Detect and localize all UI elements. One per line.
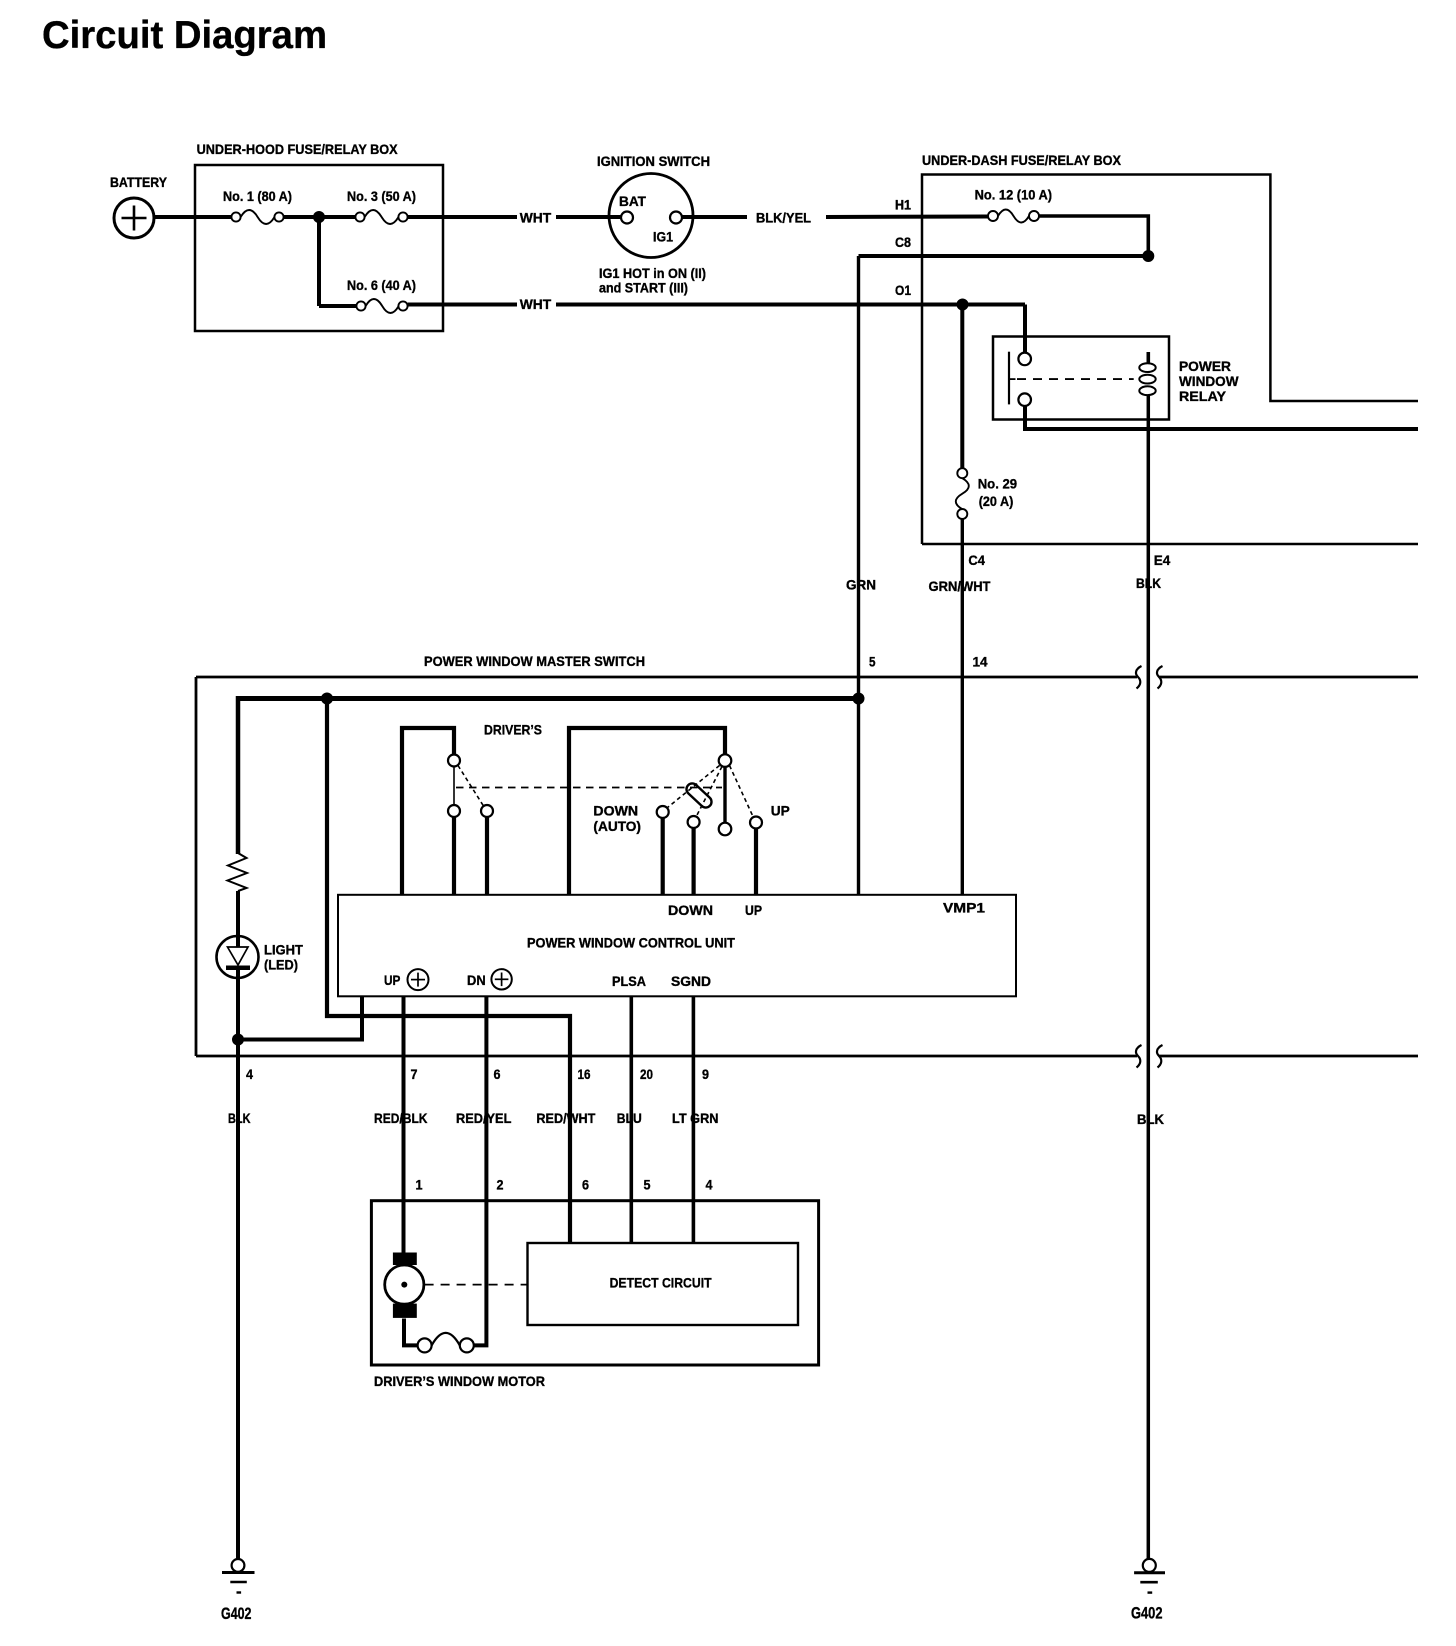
floating contact circle	[719, 823, 732, 836]
svg-text:PLSA: PLSA	[612, 973, 646, 989]
svg-text:LT GRN: LT GRN	[672, 1110, 719, 1126]
pivot contact circle	[719, 754, 732, 767]
svg-text:7: 7	[411, 1066, 418, 1082]
moving contact thin link	[453, 767, 455, 806]
svg-text:BLK: BLK	[1136, 575, 1161, 591]
wire contact to control unit	[485, 817, 489, 895]
svg-text:WHT: WHT	[520, 296, 552, 312]
svg-text:G402: G402	[221, 1604, 252, 1623]
svg-text:UP: UP	[745, 902, 762, 918]
svg-text:BAT: BAT	[619, 193, 646, 209]
inline connector circles	[418, 1338, 432, 1352]
wire fuse6 WHT to under-dash O1	[408, 303, 517, 307]
svg-text:DETECT CIRCUIT: DETECT CIRCUIT	[610, 1275, 712, 1291]
relay contact top	[1018, 353, 1031, 366]
svg-text:BLK/YEL: BLK/YEL	[756, 210, 811, 226]
svg-text:6: 6	[494, 1066, 501, 1082]
wire break mark	[1136, 1045, 1142, 1068]
svg-text:WINDOW: WINDOW	[1179, 373, 1239, 389]
long dashed actuation link	[456, 787, 722, 789]
wire O1 drop to fuse29	[960, 305, 964, 469]
svg-text:No. 12 (10 A): No. 12 (10 A)	[975, 187, 1053, 203]
wire pin9 LT GRN	[692, 996, 696, 1243]
svg-text:BLK: BLK	[228, 1110, 251, 1126]
junction node C8	[1142, 250, 1154, 262]
svg-text:Circuit Diagram: Circuit Diagram	[42, 14, 327, 57]
svg-text:14: 14	[973, 654, 988, 670]
ignition switch SW	[609, 174, 693, 258]
svg-text:RED/YEL: RED/YEL	[456, 1110, 512, 1126]
master switch box top edge	[196, 677, 1418, 1056]
relay switch plate	[1008, 352, 1010, 405]
junction node rail/GRN	[853, 693, 865, 705]
wire relay coil to ground BLK (E4)	[1147, 395, 1151, 1559]
svg-text:(AUTO): (AUTO)	[593, 818, 641, 834]
svg-text:DOWN: DOWN	[593, 803, 638, 819]
svg-text:E4: E4	[1154, 552, 1171, 568]
wire up contact to control unit	[754, 829, 758, 896]
svg-text:6: 6	[582, 1177, 589, 1193]
control unit box	[338, 895, 1016, 997]
svg-text:GRN/WHT: GRN/WHT	[929, 578, 991, 594]
svg-text:WHT: WHT	[520, 210, 552, 226]
wire fuse12 to coil feed	[1039, 216, 1148, 256]
wire resistor to LED	[236, 891, 240, 947]
svg-text:BATTERY: BATTERY	[110, 174, 168, 190]
ground G402 right	[1134, 1559, 1165, 1593]
contact circle UP	[750, 817, 762, 829]
wire contact to control unit	[452, 817, 456, 895]
relay coil	[1139, 352, 1155, 395]
contact circle	[448, 805, 460, 817]
wire C8 to GRN drop	[859, 254, 1149, 258]
wire break mark	[1136, 666, 1142, 689]
svg-text:BLU: BLU	[617, 1110, 642, 1126]
svg-text:RED/BLK: RED/BLK	[374, 1110, 428, 1126]
svg-text:No. 6 (40 A): No. 6 (40 A)	[347, 277, 416, 293]
svg-text:9: 9	[702, 1066, 709, 1082]
fuse No.3 (50 A)	[355, 210, 407, 224]
wire GRN vertical	[857, 256, 860, 699]
fuse No.6 (40 A)	[356, 299, 407, 313]
wire relay output to right edge	[1025, 406, 1418, 429]
wire junction down to fuse6	[317, 215, 321, 306]
svg-text:O1: O1	[895, 282, 911, 298]
svg-text:UNDER-HOOD FUSE/RELAY BOX: UNDER-HOOD FUSE/RELAY BOX	[197, 141, 399, 157]
motor box	[371, 1201, 818, 1365]
svg-text:POWER WINDOW MASTER SWITCH: POWER WINDOW MASTER SWITCH	[424, 653, 645, 669]
wire O1 to relay switch	[1023, 305, 1027, 353]
svg-text:LIGHT: LIGHT	[264, 942, 303, 958]
svg-text:IG1: IG1	[653, 229, 673, 245]
battery B1	[114, 198, 154, 238]
pivot arm	[723, 767, 726, 823]
branch wire junction to pin16	[327, 699, 570, 1244]
svg-text:(LED): (LED)	[264, 957, 298, 973]
svg-text:RELAY: RELAY	[1179, 388, 1227, 404]
svg-text:G402: G402	[1131, 1604, 1163, 1623]
svg-text:IGNITION SWITCH: IGNITION SWITCH	[597, 153, 710, 169]
fuse No.12 (10 A)	[988, 210, 1039, 223]
wire break mark	[1157, 1045, 1163, 1068]
wire auto contact to control unit	[661, 818, 665, 895]
ground G402 left	[222, 1559, 255, 1593]
wire break mark	[1157, 666, 1163, 689]
svg-text:POWER: POWER	[1179, 358, 1231, 374]
svg-text:C4: C4	[968, 552, 985, 568]
svg-text:DN: DN	[467, 972, 486, 988]
toggle knob	[684, 781, 714, 810]
wire down contact to control unit	[691, 828, 695, 895]
svg-text:UNDER-DASH FUSE/RELAY BOX: UNDER-DASH FUSE/RELAY BOX	[922, 152, 1122, 168]
fuse No.1 (80 A)	[231, 210, 283, 224]
svg-text:UP: UP	[384, 972, 400, 988]
junction node O1	[957, 299, 969, 311]
wire pin6 RED/YEL	[474, 996, 487, 1345]
wire pin20 BLU	[629, 996, 633, 1243]
junction node LED/control-unit return	[232, 1034, 244, 1046]
svg-text:and START (III): and START (III)	[599, 280, 688, 296]
under-hood fuse/relay box	[195, 165, 443, 331]
under-dash fuse/relay box outline	[922, 175, 1418, 545]
svg-text:No. 3 (50 A): No. 3 (50 A)	[347, 188, 416, 204]
power window relay box	[993, 337, 1169, 420]
master switch box bottom edge	[196, 1055, 1137, 1058]
svg-text:4: 4	[706, 1177, 713, 1193]
svg-text:No. 29: No. 29	[978, 476, 1018, 492]
svg-text:16: 16	[578, 1066, 591, 1082]
wire IG1 to under-dash H1 (BLK/YEL)	[682, 215, 747, 219]
svg-text:1: 1	[416, 1177, 423, 1193]
contact circle	[481, 805, 493, 817]
wire fuse3 to ignition switch (WHT)	[408, 215, 517, 219]
relay actuation dashed link	[1017, 378, 1134, 380]
svg-text:SGND: SGND	[671, 973, 711, 989]
inline connector arc	[432, 1333, 460, 1346]
svg-text:4: 4	[246, 1066, 253, 1082]
supply rail inside master switch	[237, 696, 859, 701]
master switch box left edge	[195, 677, 198, 1056]
junction node fuse1/fuse3/fuse6	[313, 211, 325, 223]
wire LED return to control unit	[238, 996, 362, 1040]
dashed link motor to detect circuit	[425, 1284, 528, 1286]
svg-text:5: 5	[644, 1177, 651, 1193]
svg-text:DRIVER’S: DRIVER’S	[484, 722, 542, 738]
dashed link pivot to up	[730, 766, 754, 817]
dashed link	[458, 766, 484, 807]
wire pin7 RED/BLK	[402, 996, 406, 1253]
svg-text:20: 20	[640, 1066, 653, 1082]
dashed link pivot to down	[697, 767, 723, 817]
svg-text:RED/WHT: RED/WHT	[536, 1110, 595, 1126]
svg-text:2: 2	[497, 1177, 504, 1193]
svg-text:No. 1 (80 A): No. 1 (80 A)	[223, 188, 292, 204]
svg-text:BLK: BLK	[1137, 1111, 1164, 1127]
driver's switch right bracket	[569, 728, 725, 895]
wire motor to inline connector	[404, 1319, 418, 1346]
svg-text:5: 5	[869, 654, 876, 670]
svg-text:VMP1: VMP1	[943, 900, 985, 916]
contact circle DOWN	[688, 816, 700, 828]
fuse No.29 (20 A)	[956, 468, 969, 519]
svg-text:POWER WINDOW CONTROL UNIT: POWER WINDOW CONTROL UNIT	[527, 935, 735, 951]
wire rail down to resistor	[236, 696, 241, 854]
wire fuse29 to C4 / GRN-WHT vertical	[961, 519, 964, 895]
detect circuit box	[528, 1243, 799, 1325]
svg-text:(20 A): (20 A)	[979, 493, 1014, 509]
relay contact bottom	[1018, 393, 1031, 406]
svg-text:DRIVER’S WINDOW MOTOR: DRIVER’S WINDOW MOTOR	[374, 1373, 545, 1389]
motor M	[385, 1253, 424, 1318]
junction node rail/branch	[321, 693, 333, 705]
resistor	[228, 853, 248, 891]
svg-text:H1: H1	[895, 197, 911, 213]
svg-text:UP: UP	[771, 803, 790, 819]
svg-text:GRN: GRN	[846, 577, 876, 593]
wire LED down to ground	[236, 970, 240, 1559]
wire GRN to control unit	[857, 699, 860, 896]
dashed link pivot to auto	[668, 766, 720, 808]
svg-text:DOWN: DOWN	[668, 902, 713, 918]
wire battery to fuse No.1	[154, 215, 232, 219]
svg-text:C8: C8	[895, 234, 911, 250]
LED lamp	[217, 936, 259, 978]
driver's switch left bracket	[402, 728, 454, 895]
contact circle DOWN(AUTO)	[657, 806, 669, 818]
wire fuse1 to fuse3	[284, 215, 356, 219]
contact circle	[448, 755, 460, 767]
